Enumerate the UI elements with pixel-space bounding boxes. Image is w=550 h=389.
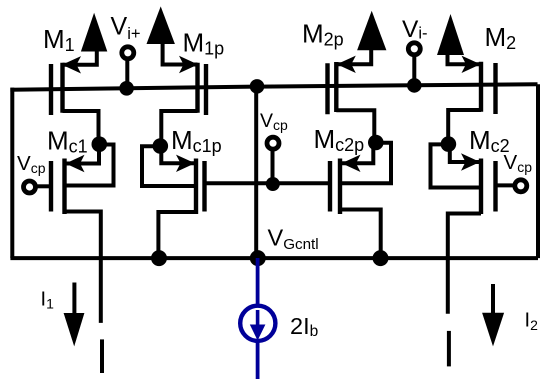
wire top gate line (slightly sloped) (10, 84, 537, 90)
label M2p (302, 19, 344, 50)
current source 2Ib (240, 258, 275, 379)
node B drain of M1p / source of Mc1p (153, 138, 169, 154)
label I1 (41, 289, 55, 312)
node dot Vi- on gate line (407, 78, 422, 93)
transistor Mc2 (431, 144, 515, 314)
supply arrow above M2 (437, 14, 464, 55)
label I2 (525, 310, 539, 334)
wire dashed output break I2 (447, 331, 451, 367)
wire dashed output break I1 (100, 339, 104, 373)
label Mc2 (469, 125, 510, 156)
input terminal Vi+ (122, 47, 134, 89)
node dot Vcp center on cascode line (266, 177, 280, 191)
label M2 (485, 22, 517, 53)
terminal Vcp right (515, 180, 527, 192)
current arrow I1 (64, 283, 85, 347)
wire center vertical V_Gcntl (254, 87, 258, 258)
transistor M1 (51, 50, 99, 144)
transistor M1p (161, 43, 206, 147)
transistor M2p (328, 49, 375, 143)
wire right border (536, 84, 540, 258)
node D drain of M2 / source of Mc2 (441, 136, 457, 152)
terminal Vcp center (267, 137, 279, 184)
supply arrow above M1p (147, 6, 175, 44)
node dot Mc1p drain on rail (151, 250, 167, 266)
label Vcp left (17, 152, 46, 176)
wire cascode gate line (206, 181, 331, 185)
label Vcp right (504, 151, 533, 175)
wire left border (10, 88, 14, 259)
label Vcp center (260, 110, 288, 133)
terminal Vcp left (24, 181, 36, 193)
label Mc1p (171, 125, 222, 156)
label Mc1 (47, 125, 88, 156)
label Mc2p (314, 124, 365, 155)
label Vi- (402, 16, 428, 43)
node dot tail current on rail (250, 250, 266, 266)
node dot Vi+ on gate line (119, 81, 134, 96)
node dot Mc2p drain on rail (373, 250, 389, 266)
transistor Mc1p (142, 146, 205, 258)
transistor M2 (448, 53, 496, 144)
input terminal Vi- (408, 43, 420, 86)
supply arrow above M2p (357, 11, 386, 51)
transistor Mc2p (330, 143, 391, 259)
label 2Ib (290, 313, 318, 340)
node C drain of M2p / source of Mc2p (368, 135, 384, 151)
wire bottom rail (10, 256, 538, 260)
label VGcntl (268, 224, 319, 253)
label Vi+ (111, 13, 141, 44)
transistor Mc1 (37, 144, 114, 323)
supply arrow above M1 (81, 13, 107, 52)
current arrow I2 (482, 284, 504, 346)
node dot center on gate line (250, 79, 265, 94)
label M1 (43, 24, 75, 55)
node A drain of M1 / source of Mc1 (92, 136, 108, 152)
label M1p (183, 28, 225, 59)
